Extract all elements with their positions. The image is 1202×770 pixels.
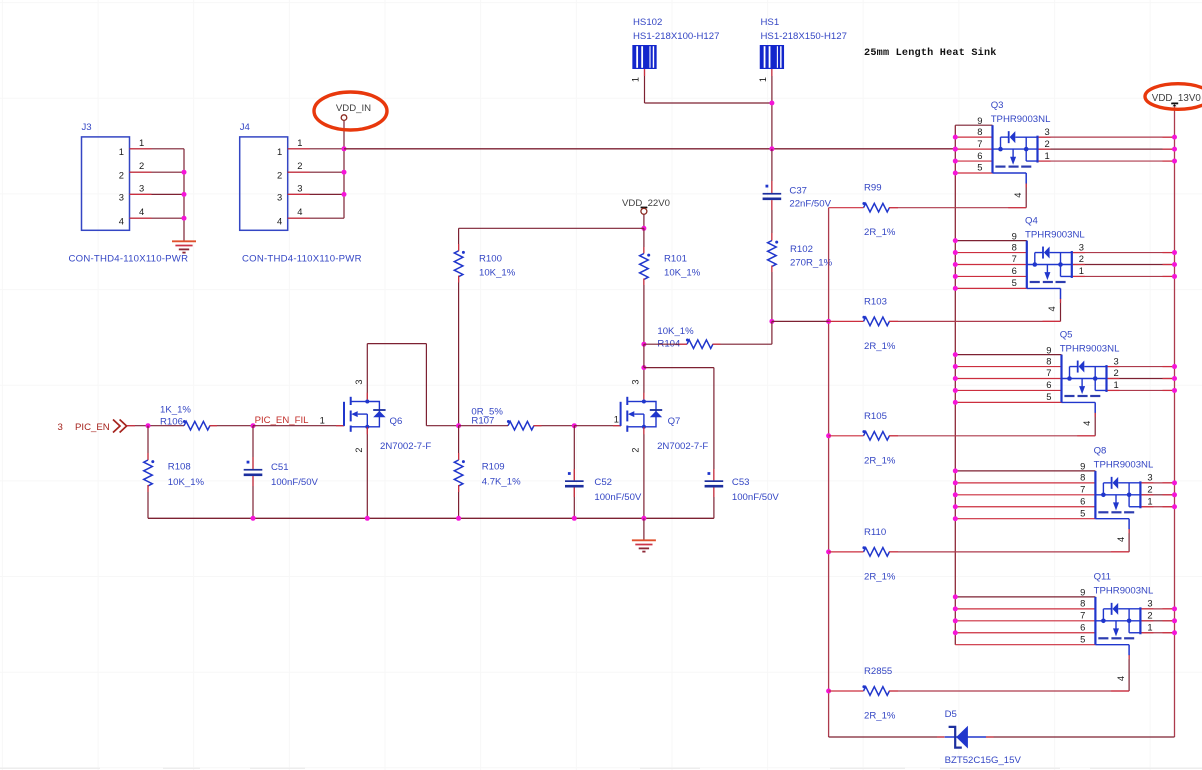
label J3 part CON-THD4-110X110-PWR — [69, 254, 189, 265]
wire Q7 drain node to C53 — [644, 367, 714, 369]
wire VDD_22V0 down — [643, 214, 645, 228]
wire to C53 — [713, 368, 715, 481]
resistor R108 — [144, 460, 205, 488]
svg-text:HS102: HS102 — [633, 17, 662, 28]
svg-text:R99: R99 — [864, 183, 882, 194]
svg-text:3: 3 — [297, 182, 302, 193]
svg-text:C52: C52 — [594, 477, 612, 488]
capacitor C53 — [705, 472, 780, 503]
svg-text:2N7002-7-F: 2N7002-7-F — [657, 441, 708, 452]
resistor R107 — [471, 407, 533, 431]
svg-text:2: 2 — [1147, 610, 1152, 621]
ground power rail — [632, 540, 656, 551]
wire R103 to gate pin — [772, 320, 1061, 322]
svg-text:100nF/50V: 100nF/50V — [271, 477, 319, 488]
svg-text:2N7002-7-F: 2N7002-7-F — [380, 441, 431, 452]
wire to C52 — [573, 426, 575, 481]
capacitor C37 — [763, 185, 832, 210]
junction J3 pin2 — [182, 170, 187, 175]
wire VDD_13V0 rail — [1174, 106, 1176, 737]
ground J3 — [172, 241, 196, 252]
junction rail C52 — [572, 516, 577, 521]
wire Q7 source — [643, 427, 645, 518]
wire R103 left lead — [829, 320, 864, 322]
svg-text:3: 3 — [1045, 126, 1050, 137]
svg-text:1: 1 — [1045, 150, 1050, 161]
junction Q5 source rail dots — [1172, 364, 1177, 393]
svg-text:HS1-218X150-H127: HS1-218X150-H127 — [761, 31, 847, 42]
resistor R105 — [862, 411, 896, 467]
wire Q11 left pin stubs — [955, 597, 1095, 645]
svg-text:2R_1%: 2R_1% — [864, 571, 896, 582]
wire R2855 left lead — [829, 690, 864, 692]
svg-text:4: 4 — [1116, 676, 1126, 681]
svg-text:2R_1%: 2R_1% — [864, 341, 896, 352]
svg-text:8: 8 — [1080, 472, 1085, 483]
svg-text:BZT52C15G_15V: BZT52C15G_15V — [945, 755, 1022, 766]
svg-text:2: 2 — [297, 160, 302, 171]
svg-text:5: 5 — [1012, 277, 1017, 288]
svg-text:3: 3 — [354, 379, 364, 384]
wire Q5 pin4 riser — [1082, 402, 1095, 435]
svg-text:100nF/50V: 100nF/50V — [732, 492, 780, 503]
svg-text:2: 2 — [139, 160, 144, 171]
junction J3 pin4 — [182, 216, 187, 221]
svg-text:2R_1%: 2R_1% — [864, 227, 896, 238]
svg-text:10K_1%: 10K_1% — [479, 268, 516, 279]
svg-text:TPHR9003NL: TPHR9003NL — [1094, 460, 1154, 471]
wire Q5 left pin stubs — [955, 355, 1061, 403]
svg-text:2: 2 — [1079, 253, 1084, 264]
wire Q8 right pin stubs — [1140, 483, 1174, 507]
wire drain rail — [954, 125, 956, 645]
svg-text:R103: R103 — [864, 296, 887, 307]
heatsink HS1 — [760, 17, 847, 69]
svg-text:1: 1 — [320, 415, 325, 426]
svg-text:Q3: Q3 — [991, 100, 1004, 111]
wire Q4 pin4 riser — [1047, 288, 1060, 321]
svg-text:1: 1 — [139, 137, 144, 148]
svg-text:3: 3 — [1147, 472, 1152, 483]
wire R104 left — [644, 343, 687, 345]
svg-text:4: 4 — [297, 206, 302, 217]
wire Q6 source — [366, 427, 368, 518]
wire Q7 drain up — [643, 368, 645, 400]
svg-text:1: 1 — [1114, 379, 1119, 390]
svg-text:2R_1%: 2R_1% — [864, 711, 896, 722]
wire to R101 — [643, 228, 645, 253]
power port VDD_13V0 — [1145, 84, 1202, 110]
wire to R100 — [458, 228, 460, 251]
svg-text:9: 9 — [1080, 461, 1085, 472]
wire R100 down — [458, 276, 460, 426]
wire Q6 box to R107 — [426, 425, 458, 427]
svg-text:1: 1 — [1079, 265, 1084, 276]
wire C53 to rail — [713, 488, 715, 519]
heatsink HS1 pin 1 — [758, 77, 768, 82]
svg-text:1: 1 — [119, 146, 124, 157]
svg-text:7: 7 — [1080, 610, 1085, 621]
wire R99 to gate pin — [889, 207, 1026, 209]
resistor R101 — [640, 254, 701, 280]
resistor R99 — [862, 183, 896, 239]
svg-text:1K_1%: 1K_1% — [160, 404, 191, 415]
capacitor C52 — [565, 472, 642, 503]
svg-text:9: 9 — [1046, 344, 1051, 355]
transistor Q8 — [1080, 446, 1154, 519]
wire Q5 right pin stubs — [1107, 367, 1175, 391]
wire R105 left lead — [829, 435, 864, 437]
junction gate rail R2855 — [826, 689, 831, 694]
svg-text:R105: R105 — [864, 411, 887, 422]
svg-text:3: 3 — [139, 182, 144, 193]
wire R100 top link — [459, 227, 644, 229]
junction J4 pin3 — [342, 192, 347, 197]
wire R105 to gate pin — [889, 435, 1095, 437]
svg-text:C51: C51 — [271, 462, 289, 473]
junction Q11 drain rail dots — [953, 594, 958, 635]
junction R104 node — [641, 342, 646, 347]
junction rail Q6 — [365, 516, 370, 521]
junction C52 tap — [572, 423, 577, 428]
wire R104 right — [713, 343, 772, 345]
svg-text:25mm Length Heat Sink: 25mm Length Heat Sink — [864, 47, 997, 59]
svg-text:4: 4 — [1013, 193, 1023, 198]
svg-text:3: 3 — [58, 422, 63, 433]
wire R99 left lead — [829, 207, 864, 209]
wire Q8 left pin stubs — [955, 471, 1095, 519]
svg-text:R107: R107 — [471, 416, 494, 427]
diode D5 — [945, 709, 1022, 766]
junction J4 pin1 VDD_IN — [342, 146, 347, 151]
wire Q3 pin4 riser — [1013, 173, 1026, 208]
wire C52 to rail — [573, 488, 575, 519]
wire R104 riser — [771, 321, 773, 344]
svg-text:5: 5 — [1046, 391, 1051, 402]
junction bus at left rail — [953, 147, 958, 152]
svg-text:J3: J3 — [82, 122, 92, 133]
wire J3 to ground — [183, 218, 185, 241]
svg-text:9: 9 — [977, 115, 982, 126]
svg-text:R110: R110 — [864, 527, 886, 538]
svg-text:6: 6 — [1080, 621, 1085, 632]
svg-text:VDD_13V0: VDD_13V0 — [1152, 93, 1202, 104]
junction J3 pin3 — [182, 192, 187, 197]
wire gate rail — [828, 208, 830, 737]
wire ground stub — [643, 518, 645, 540]
connector J3 — [82, 122, 185, 230]
svg-text:CON-THD4-110X110-PWR: CON-THD4-110X110-PWR — [242, 254, 362, 265]
wire Q6 drain loop — [367, 344, 426, 426]
junction rail R109 — [456, 516, 461, 521]
power port VDD_IN — [314, 92, 387, 130]
wire gate node down — [643, 344, 645, 367]
transistor Q11 — [1080, 572, 1154, 645]
heatsink HS102 pin 1 — [631, 77, 641, 82]
svg-text:HS1-218X100-H127: HS1-218X100-H127 — [633, 31, 719, 42]
connector J4 — [240, 122, 344, 230]
svg-text:3: 3 — [1114, 355, 1119, 366]
svg-text:3: 3 — [1079, 241, 1084, 252]
port 3 PIC_EN — [58, 420, 127, 434]
junction Q11 source rail dots — [1172, 606, 1177, 635]
resistor R103 — [862, 296, 896, 352]
wire bus to C37 — [771, 149, 773, 193]
junction gate rail R105 — [826, 433, 831, 438]
svg-text:R109: R109 — [482, 462, 505, 473]
wire D5 row — [829, 736, 1175, 738]
svg-text:4: 4 — [119, 216, 124, 227]
svg-text:2: 2 — [1045, 138, 1050, 149]
svg-text:4: 4 — [1116, 537, 1126, 542]
svg-text:Q6: Q6 — [390, 416, 403, 427]
wire R2855 to gate pin — [889, 690, 1129, 692]
wire Q8 pin4 riser — [1116, 519, 1129, 552]
svg-text:8: 8 — [1012, 241, 1017, 252]
svg-text:3: 3 — [1147, 598, 1152, 609]
svg-text:R106: R106 — [160, 416, 183, 427]
svg-text:VDD_IN: VDD_IN — [336, 103, 371, 114]
svg-text:Q8: Q8 — [1094, 446, 1107, 457]
svg-text:1: 1 — [614, 414, 619, 425]
svg-text:4: 4 — [277, 216, 282, 227]
svg-text:R108: R108 — [168, 462, 191, 473]
svg-text:R101: R101 — [664, 254, 687, 265]
svg-text:22nF/50V: 22nF/50V — [789, 199, 831, 210]
wire Q11 pin4 riser — [1116, 645, 1129, 691]
wire J4 pin bus — [343, 121, 345, 219]
note 25mm Length Heat Sink — [864, 47, 997, 59]
svg-text:7: 7 — [1080, 484, 1085, 495]
svg-text:2R_1%: 2R_1% — [864, 455, 896, 466]
resistor R109 — [454, 460, 521, 488]
svg-text:6: 6 — [1012, 265, 1017, 276]
svg-text:R102: R102 — [790, 244, 813, 255]
wire Q3 left pin stubs — [955, 125, 992, 173]
junction gate rail R110 — [826, 549, 831, 554]
svg-text:Q4: Q4 — [1025, 215, 1038, 226]
svg-text:5: 5 — [1080, 633, 1085, 644]
svg-text:TPHR9003NL: TPHR9003NL — [1094, 586, 1154, 597]
svg-text:3: 3 — [119, 192, 124, 203]
svg-text:J4: J4 — [240, 122, 251, 133]
transistor Q5 — [1046, 329, 1120, 402]
svg-text:4: 4 — [1082, 421, 1092, 426]
junction Q8 drain rail dots — [953, 468, 958, 521]
net label PIC_EN_FIL — [255, 415, 310, 426]
svg-text:2: 2 — [119, 170, 124, 181]
wire Q3 right pin stubs — [1038, 137, 1175, 161]
svg-text:R100: R100 — [479, 254, 502, 265]
wire to R109 — [458, 426, 460, 460]
svg-text:8: 8 — [1046, 355, 1051, 366]
junction gate rail R103 — [826, 319, 831, 324]
wire R106 to C51 — [210, 425, 254, 427]
wire VDD_IN bus — [344, 148, 955, 150]
svg-text:10K_1%: 10K_1% — [657, 326, 694, 337]
junction C51 tap — [251, 423, 256, 428]
transistor Q3 — [977, 100, 1051, 173]
wire R110 to gate pin — [889, 551, 1129, 553]
svg-text:2: 2 — [277, 170, 282, 181]
transistor Q4 — [1012, 215, 1086, 288]
svg-text:4: 4 — [1047, 306, 1057, 311]
wire R110 left lead — [829, 551, 864, 553]
wire J3 pin bus — [183, 149, 185, 218]
junction Q8 source rail dots — [1172, 480, 1177, 509]
resistor R110 — [862, 527, 896, 583]
svg-text:6: 6 — [977, 150, 982, 161]
junction gate node — [769, 319, 774, 324]
junction R108 tap — [146, 423, 151, 428]
wire R109 to rail — [458, 485, 460, 518]
junction VDD_22V0 node — [641, 226, 646, 231]
label Q7 pin 1 — [614, 414, 619, 425]
wire to C51 — [252, 426, 254, 469]
svg-text:2: 2 — [631, 447, 641, 452]
svg-text:6: 6 — [1080, 495, 1085, 506]
svg-text:PIC_EN_FIL: PIC_EN_FIL — [255, 415, 310, 426]
wire R101 down — [643, 279, 645, 345]
svg-text:8: 8 — [977, 126, 982, 137]
svg-text:TPHR9003NL: TPHR9003NL — [991, 114, 1051, 125]
svg-text:1: 1 — [297, 137, 302, 148]
svg-text:7: 7 — [1012, 253, 1017, 264]
svg-text:1: 1 — [1147, 495, 1152, 506]
svg-text:2: 2 — [354, 447, 364, 452]
transistor Q6 — [344, 379, 431, 452]
wire Q4 right pin stubs — [1072, 253, 1175, 277]
junction Q5 drain rail dots — [953, 352, 958, 405]
resistor R102 — [768, 241, 833, 269]
power port VDD_22V0 — [622, 198, 670, 214]
svg-text:9: 9 — [1080, 587, 1085, 598]
svg-text:HS1: HS1 — [761, 17, 780, 28]
wire Q4 left pin stubs — [955, 241, 1027, 289]
wire C37 to R102 — [771, 200, 773, 240]
junction Q3 drain rail dots — [953, 135, 958, 176]
svg-text:Q7: Q7 — [668, 416, 681, 427]
wire R107 left — [459, 425, 508, 427]
wire PIC_EN to R106 — [127, 425, 184, 427]
svg-text:9: 9 — [1012, 230, 1017, 241]
wire Q11 right pin stubs — [1140, 609, 1174, 633]
junction rail C51 — [251, 516, 256, 521]
junction J4 pin2 — [342, 170, 347, 175]
svg-text:270R_1%: 270R_1% — [790, 258, 833, 269]
label Q6 pin 1 — [320, 415, 325, 426]
svg-text:2: 2 — [1147, 484, 1152, 495]
svg-text:8: 8 — [1080, 598, 1085, 609]
svg-text:C37: C37 — [789, 186, 807, 197]
svg-text:3: 3 — [631, 379, 641, 384]
resistor R100 — [454, 251, 515, 279]
wire R108 to rail — [147, 485, 149, 518]
resistor R104 — [657, 326, 712, 349]
resistor R2855 — [862, 666, 896, 722]
svg-text:Q11: Q11 — [1094, 572, 1111, 583]
svg-text:1: 1 — [631, 77, 641, 82]
svg-text:CON-THD4-110X110-PWR: CON-THD4-110X110-PWR — [69, 254, 189, 265]
svg-text:7: 7 — [1046, 367, 1051, 378]
svg-text:10K_1%: 10K_1% — [168, 477, 205, 488]
resistor R106 — [160, 404, 210, 430]
svg-text:7: 7 — [977, 138, 982, 149]
svg-text:1: 1 — [758, 77, 768, 82]
wire bottom rail — [148, 517, 714, 519]
svg-text:R2855: R2855 — [864, 666, 892, 677]
wire R107 to C52 — [534, 425, 575, 427]
svg-text:1: 1 — [1147, 621, 1152, 632]
svg-text:100nF/50V: 100nF/50V — [594, 492, 642, 503]
capacitor C51 — [244, 461, 319, 488]
wire C51 to rail — [252, 476, 254, 518]
wire R102 to gate node — [771, 266, 773, 322]
junction R100-R107-R109 — [456, 423, 461, 428]
wire to R108 — [147, 426, 149, 460]
svg-text:4.7K_1%: 4.7K_1% — [482, 477, 521, 488]
svg-text:C53: C53 — [732, 477, 750, 488]
wire HS102 to HS1 junction — [645, 69, 772, 103]
label J4 part CON-THD4-110X110-PWR — [242, 254, 362, 265]
junction Q3 source rail dots — [1172, 135, 1177, 164]
junction Q7 drain node — [641, 365, 646, 370]
junction bus at C37 column — [769, 146, 774, 151]
heatsink HS102 — [632, 17, 719, 69]
svg-text:6: 6 — [1046, 379, 1051, 390]
wire to Q7 gate — [574, 425, 621, 427]
svg-text:5: 5 — [977, 162, 982, 173]
svg-text:2: 2 — [1114, 367, 1119, 378]
svg-text:10K_1%: 10K_1% — [664, 268, 701, 279]
svg-text:PIC_EN: PIC_EN — [75, 422, 110, 433]
transistor Q7 — [621, 379, 709, 452]
svg-text:Q5: Q5 — [1060, 329, 1073, 340]
junction HS wires — [769, 101, 774, 106]
svg-text:TPHR9003NL: TPHR9003NL — [1060, 343, 1120, 354]
svg-text:TPHR9003NL: TPHR9003NL — [1025, 229, 1085, 240]
wire PIC_EN_FIL to Q6 gate — [253, 425, 344, 427]
wire HS1 down to bus — [771, 69, 773, 149]
junction Q4 drain rail dots — [953, 238, 958, 291]
svg-text:1: 1 — [277, 146, 282, 157]
svg-text:5: 5 — [1080, 507, 1085, 518]
junction rail Q7 — [641, 516, 646, 521]
svg-text:3: 3 — [277, 192, 282, 203]
svg-text:D5: D5 — [945, 709, 957, 720]
svg-text:4: 4 — [139, 206, 144, 217]
junction Q4 source rail dots — [1172, 250, 1177, 279]
